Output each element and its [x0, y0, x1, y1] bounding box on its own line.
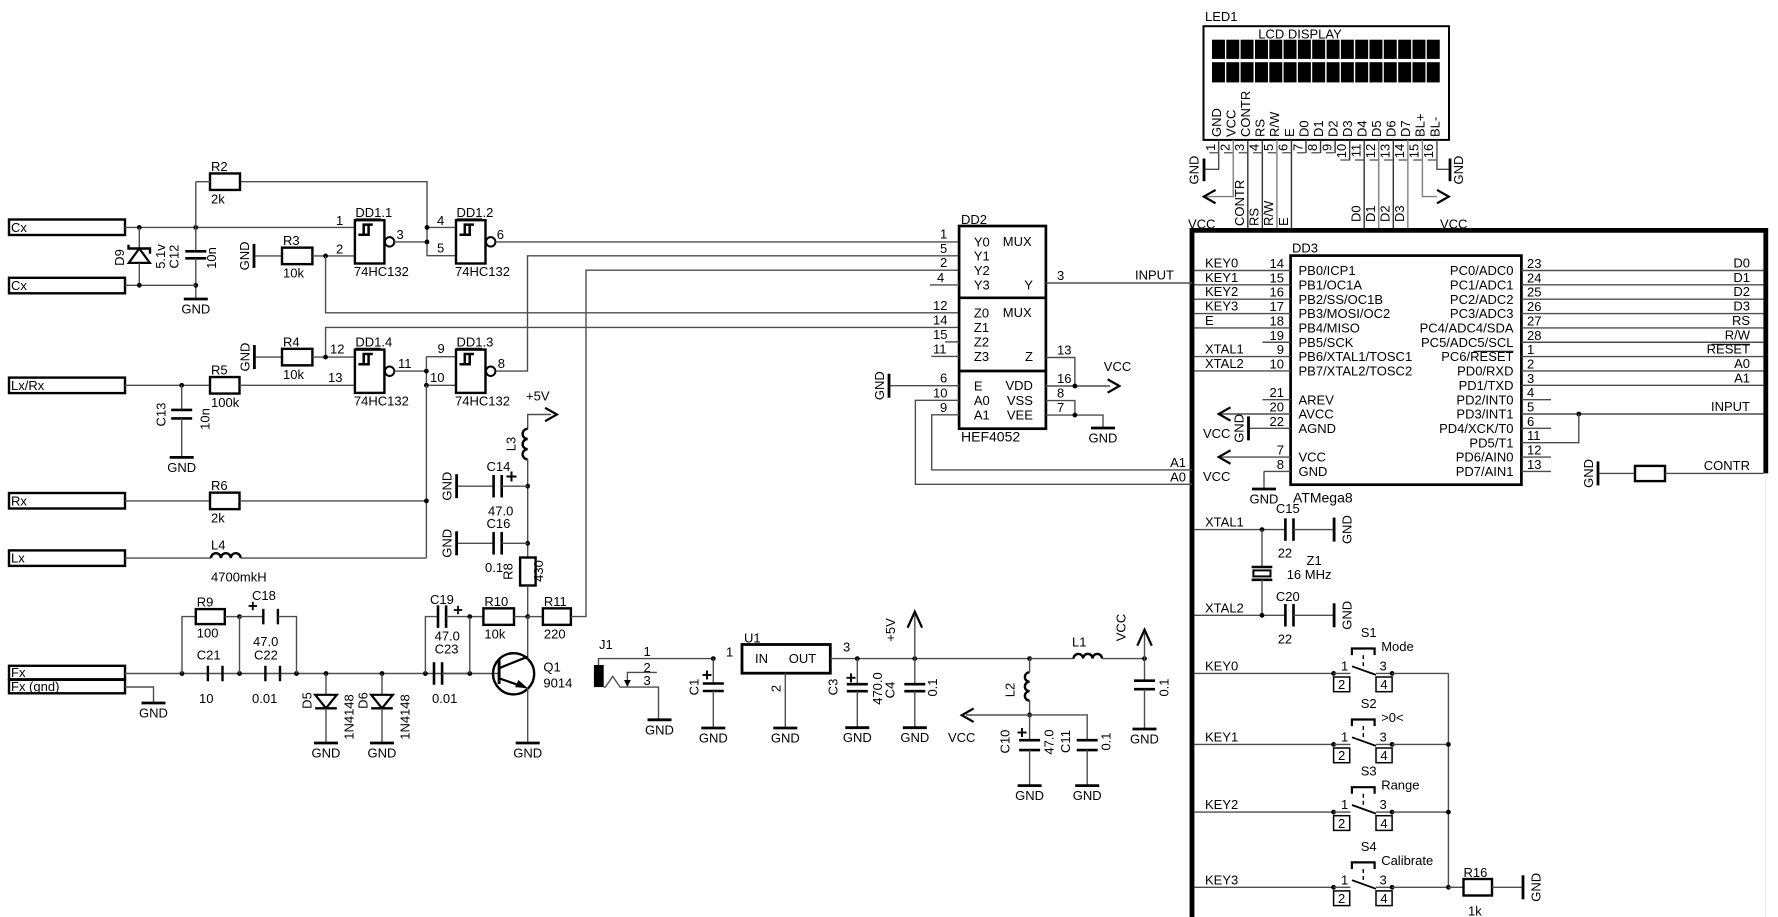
svg-text:3: 3	[1232, 144, 1247, 151]
svg-text:R10: R10	[484, 594, 508, 609]
svg-text:INPUT: INPUT	[1135, 267, 1174, 282]
DD2 A1 wire	[932, 400, 1192, 470]
resistor R10 10k	[470, 594, 530, 642]
ground at J1	[645, 720, 674, 738]
svg-text:8: 8	[1305, 144, 1320, 151]
svg-text:DD1.2: DD1.2	[457, 205, 494, 220]
svg-text:IN: IN	[755, 651, 768, 666]
ground at C15	[1334, 515, 1355, 544]
svg-text:1: 1	[940, 227, 947, 242]
svg-text:5: 5	[940, 241, 947, 256]
svg-text:KEY0: KEY0	[1205, 658, 1238, 673]
svg-text:D1: D1	[1363, 205, 1378, 222]
svg-text:1: 1	[1341, 659, 1348, 674]
svg-text:10: 10	[1334, 144, 1349, 158]
LCD pin 11 wire D0	[1363, 140, 1365, 228]
svg-text:CONTR: CONTR	[1704, 458, 1750, 473]
svg-text:C18: C18	[252, 588, 276, 603]
svg-text:Q1: Q1	[543, 660, 560, 675]
capacitor C20 22	[1276, 589, 1334, 647]
svg-text:1N4148: 1N4148	[342, 694, 357, 740]
svg-text:12: 12	[1527, 443, 1541, 458]
wire R9 to C18	[225, 614, 242, 673]
svg-text:C21: C21	[197, 647, 221, 662]
DD3 pin 11 wire to INPUT	[1521, 414, 1578, 443]
svg-text:9: 9	[940, 400, 947, 415]
MCU DD3 label	[1292, 241, 1318, 256]
connector J1	[594, 637, 713, 688]
svg-text:11: 11	[933, 341, 947, 356]
svg-text:10k: 10k	[283, 367, 304, 382]
svg-text:PD4/XCK/T0: PD4/XCK/T0	[1439, 421, 1513, 436]
pin 10 label DD1.3	[430, 370, 444, 385]
svg-text:12: 12	[330, 342, 344, 357]
resistor R3 10k	[255, 233, 355, 281]
U1 pin2 to ground	[769, 673, 786, 728]
svg-text:10n: 10n	[204, 247, 219, 269]
svg-text:3: 3	[1380, 797, 1387, 812]
switch S3 Range	[1331, 764, 1448, 831]
DD3 pin 13 stub	[1521, 457, 1551, 472]
svg-text:R11: R11	[544, 594, 567, 609]
svg-text:GND: GND	[167, 460, 196, 475]
capacitor C12 10n	[167, 227, 220, 299]
svg-text:GND: GND	[1187, 156, 1202, 185]
svg-text:12: 12	[1363, 144, 1378, 158]
junction L2	[1027, 656, 1032, 661]
svg-text:GND: GND	[1529, 873, 1544, 902]
ground at Fx-gnd	[139, 703, 168, 721]
diode D5 1N4148	[300, 671, 357, 743]
LCD pin names	[1209, 91, 1442, 137]
ground below 0.1 cap	[1130, 729, 1159, 747]
svg-text:6: 6	[1276, 144, 1291, 151]
DD2 pin14 label	[933, 312, 947, 327]
ground at R4	[237, 343, 254, 372]
svg-text:LCD DISPLAY: LCD DISPLAY	[1258, 27, 1342, 42]
pin 1 label DD1.1	[336, 213, 343, 228]
svg-text:VCC: VCC	[1203, 469, 1230, 484]
connector Lx/Rx	[9, 378, 125, 394]
svg-text:R16: R16	[1464, 865, 1488, 880]
svg-text:C10: C10	[998, 730, 1013, 754]
svg-text:3: 3	[1380, 659, 1387, 674]
DD3 XTAL2 wire	[1194, 356, 1290, 372]
ground below Q1	[513, 743, 542, 761]
diode D6 1N4148	[356, 671, 413, 743]
svg-text:GND: GND	[1581, 459, 1596, 488]
svg-text:PC3/ADC3: PC3/ADC3	[1450, 306, 1514, 321]
svg-text:S1: S1	[1361, 625, 1377, 640]
VCC tag LCD left	[1188, 190, 1216, 232]
wire C19 to base node	[469, 617, 471, 674]
LCD pin 16 wire to GND	[1437, 140, 1449, 169]
svg-text:1: 1	[1341, 730, 1348, 745]
svg-text:9: 9	[1277, 342, 1284, 357]
svg-text:10: 10	[430, 370, 444, 385]
key KEY0 wire	[1194, 658, 1333, 673]
resistor R9 100	[182, 595, 225, 674]
transistor Q1 9014	[493, 617, 572, 695]
wire Z1 row to R4 node	[326, 327, 960, 357]
svg-text:RS: RS	[1247, 208, 1262, 226]
svg-text:13: 13	[328, 370, 342, 385]
wire L4 to node	[241, 557, 427, 559]
wire DD1.3 out to Y1 net	[497, 256, 960, 371]
svg-text:CONTR: CONTR	[1232, 180, 1247, 226]
svg-text:8: 8	[1277, 457, 1284, 472]
DD3 left pin names	[1299, 263, 1413, 479]
resistor R5 100k	[210, 363, 240, 411]
svg-text:2: 2	[769, 685, 784, 692]
wire node2 to Z0 row	[326, 256, 960, 313]
zener diode D9 5.1v	[112, 227, 168, 285]
pin 5 label DD1.2	[437, 240, 444, 255]
svg-text:14: 14	[1270, 256, 1284, 271]
svg-text:Y3: Y3	[974, 278, 990, 293]
svg-text:Calibrate: Calibrate	[1381, 853, 1433, 868]
svg-text:17: 17	[1270, 299, 1284, 314]
svg-text:KEY3: KEY3	[1205, 299, 1238, 314]
ground below C13	[167, 457, 196, 475]
junction node Cx-C12-R2	[193, 225, 198, 230]
DD2 pin11 stub	[931, 341, 959, 356]
svg-text:3: 3	[1527, 371, 1534, 386]
svg-text:Cx: Cx	[11, 278, 27, 293]
svg-text:74HC132: 74HC132	[354, 264, 409, 279]
svg-text:INPUT: INPUT	[1711, 399, 1750, 414]
DD3 pin 5 INPUT wire	[1521, 399, 1763, 416]
svg-text:4: 4	[1380, 891, 1387, 906]
net label RS (LCD)	[1247, 208, 1262, 226]
faint sheet edge	[1765, 476, 1767, 917]
inductor L1	[1030, 635, 1102, 659]
ground at LCD pin1	[1187, 156, 1205, 185]
svg-text:Y2: Y2	[974, 263, 990, 278]
svg-text:C4: C4	[883, 682, 898, 699]
svg-text:24: 24	[1527, 270, 1541, 285]
svg-text:VCC: VCC	[1224, 110, 1239, 137]
LCD pin 14 wire D3	[1407, 140, 1409, 228]
svg-text:R9: R9	[197, 595, 214, 610]
node DD1.3 inputs	[424, 357, 456, 388]
DD2 pin names	[974, 234, 1033, 423]
svg-text:26: 26	[1527, 299, 1541, 314]
XTAL1 wire	[1194, 515, 1285, 532]
svg-text:C16: C16	[487, 516, 511, 531]
net label CONTR (LCD)	[1232, 180, 1247, 226]
connector Fx (gnd)	[9, 679, 125, 694]
svg-text:D6: D6	[1384, 120, 1399, 137]
svg-text:KEY2: KEY2	[1205, 284, 1238, 299]
capacitor C21 10	[197, 647, 223, 706]
svg-text:C14: C14	[487, 459, 511, 474]
svg-text:1: 1	[1203, 144, 1218, 151]
svg-text:KEY3: KEY3	[1205, 872, 1238, 887]
wire U1 out rail	[830, 658, 1029, 660]
resistor R6 2k	[125, 478, 240, 526]
svg-text:GND: GND	[872, 371, 887, 400]
svg-text:AGND: AGND	[1299, 421, 1337, 436]
svg-text:C13: C13	[154, 403, 169, 427]
svg-text:A1: A1	[1170, 455, 1186, 470]
svg-text:9: 9	[438, 341, 445, 356]
svg-text:7: 7	[1277, 443, 1284, 458]
ground below C4	[900, 728, 929, 746]
LCD pin 1 wire to GND	[1205, 140, 1218, 169]
svg-text:GND: GND	[1250, 492, 1279, 507]
wire DD1.4 out	[394, 370, 426, 372]
junction mid	[237, 671, 242, 676]
ground below C11	[1073, 786, 1102, 804]
svg-text:L2: L2	[1003, 683, 1018, 697]
DD3 pin 21 AREV stub	[1262, 385, 1290, 400]
svg-text:E: E	[1205, 313, 1214, 328]
svg-text:Z3: Z3	[974, 349, 989, 364]
ground at R16	[1523, 873, 1544, 902]
svg-text:0.1: 0.1	[925, 678, 940, 696]
svg-text:Y: Y	[1024, 277, 1033, 292]
svg-text:S3: S3	[1361, 764, 1377, 779]
net CONTR with resistor	[1581, 458, 1763, 488]
svg-text:OUT: OUT	[789, 651, 817, 666]
DD3 pin 6 stub	[1521, 414, 1551, 429]
svg-text:L1: L1	[1072, 635, 1086, 650]
ground at DD3 pin8	[1250, 489, 1279, 507]
svg-text:L4: L4	[211, 538, 225, 553]
ground below U1	[771, 728, 800, 746]
svg-text:PD5/T1: PD5/T1	[1469, 435, 1513, 450]
svg-text:2: 2	[1338, 891, 1345, 906]
svg-text:4: 4	[937, 270, 944, 285]
svg-text:C3: C3	[826, 679, 841, 696]
svg-text:4: 4	[1380, 816, 1387, 831]
LCD pin 15 wire to VCC	[1422, 140, 1437, 197]
junction R9-left	[180, 671, 185, 676]
regulator U1	[726, 631, 850, 674]
key KEY2 wire	[1194, 797, 1333, 812]
DD3 pin 19 stub	[1262, 328, 1290, 343]
svg-text:Z0: Z0	[974, 305, 989, 320]
svg-text:VDD: VDD	[1005, 378, 1032, 393]
wire DD1.1 out to DD1.2	[394, 241, 427, 243]
gate DD1.4 74HC132	[354, 334, 409, 408]
capacitor C19 47.0	[430, 592, 472, 644]
svg-text:GND: GND	[645, 722, 674, 737]
power +5V arrow	[526, 389, 557, 429]
gate DD1.2 74HC132	[455, 205, 510, 279]
svg-text:VCC: VCC	[1114, 614, 1129, 641]
capacitor C1 470.0	[687, 656, 724, 728]
junction C18-right	[294, 671, 299, 676]
svg-text:220: 220	[544, 626, 566, 641]
inductor L3	[504, 429, 528, 460]
svg-text:A0: A0	[1734, 356, 1750, 371]
wire L3 to R8	[525, 459, 530, 557]
svg-text:PD1/TXD: PD1/TXD	[1459, 378, 1514, 393]
svg-text:PD3/INT1: PD3/INT1	[1456, 407, 1513, 422]
J1 sleeve to ground	[604, 676, 659, 719]
svg-text:R6: R6	[211, 478, 228, 493]
pin 2 label DD1.1	[336, 241, 343, 256]
DD2 VDD to VCC	[1046, 359, 1131, 393]
svg-text:PD0/RXD: PD0/RXD	[1457, 364, 1513, 379]
svg-text:21: 21	[1270, 385, 1284, 400]
svg-text:2: 2	[940, 255, 947, 270]
svg-text:1k: 1k	[1468, 904, 1482, 917]
svg-text:D0: D0	[1296, 120, 1311, 137]
LCD character cells	[1212, 40, 1440, 83]
net label D0 (LCD)	[1349, 205, 1364, 222]
LCD pin 6 wire E	[1290, 140, 1292, 228]
DD3 AVCC to VCC	[1203, 400, 1291, 442]
svg-text:R/W: R/W	[1725, 327, 1751, 342]
pin 3 label DD1.1	[397, 227, 404, 242]
ground below D6	[368, 743, 397, 761]
svg-text:2: 2	[1338, 816, 1345, 831]
svg-text:E: E	[974, 378, 983, 393]
svg-text:28: 28	[1527, 328, 1541, 343]
switch common bus	[1446, 673, 1451, 889]
svg-text:9: 9	[1319, 144, 1334, 151]
MCU DD3 name ATMega8	[1293, 490, 1353, 506]
resistor R8 430	[501, 558, 547, 617]
svg-text:Range: Range	[1381, 778, 1419, 793]
LCD display box	[1204, 26, 1450, 140]
svg-text:10: 10	[1270, 356, 1284, 371]
svg-text:12: 12	[933, 298, 947, 313]
DD2 VSS wire	[1046, 386, 1075, 416]
svg-text:D5: D5	[1369, 120, 1384, 137]
svg-text:23: 23	[1527, 256, 1541, 271]
svg-text:GND: GND	[312, 746, 341, 761]
svg-text:DD1.3: DD1.3	[457, 334, 494, 349]
LCD pin 12 wire D1	[1378, 140, 1380, 228]
svg-text:XTAL2: XTAL2	[1205, 600, 1244, 615]
svg-text:C12: C12	[167, 245, 182, 269]
svg-text:PB0/ICP1: PB0/ICP1	[1299, 263, 1356, 278]
DD3 pin 12 stub	[1521, 443, 1551, 458]
svg-text:GND: GND	[440, 529, 455, 558]
svg-text:ATMega8: ATMega8	[1293, 490, 1353, 506]
svg-text:PB4/MISO: PB4/MISO	[1299, 321, 1360, 336]
svg-text:13: 13	[1378, 144, 1393, 158]
DD2 pin12 label	[933, 298, 947, 313]
LCD pin 5 wire R/W	[1276, 140, 1278, 228]
svg-text:GND: GND	[368, 746, 397, 761]
DD3 KEY/E input wires	[1194, 256, 1290, 329]
LCD pin 2 wire to VCC	[1206, 140, 1233, 197]
svg-text:C15: C15	[1276, 501, 1300, 516]
svg-text:MUX: MUX	[1003, 234, 1032, 249]
svg-text:20: 20	[1270, 400, 1284, 415]
svg-text:A0: A0	[974, 393, 990, 408]
svg-text:6: 6	[497, 227, 504, 242]
svg-text:D4: D4	[1355, 120, 1370, 137]
svg-text:2: 2	[1338, 677, 1345, 692]
svg-text:10k: 10k	[484, 626, 505, 641]
DD2 Y output INPUT net	[1046, 267, 1192, 283]
wire Q1 emitter to ground	[527, 688, 529, 743]
svg-text:4: 4	[1380, 677, 1387, 692]
svg-text:3: 3	[644, 673, 651, 688]
MUX DD2 box	[959, 226, 1046, 429]
svg-text:6: 6	[940, 371, 947, 386]
LCD pin 13 wire D2	[1392, 140, 1394, 228]
inductor L2	[1003, 659, 1033, 718]
svg-text:XTAL2: XTAL2	[1205, 356, 1244, 371]
svg-text:0.01: 0.01	[252, 691, 277, 706]
svg-text:4: 4	[437, 213, 444, 228]
svg-text:27: 27	[1527, 313, 1541, 328]
svg-text:Y0: Y0	[974, 234, 990, 249]
connector Rx	[9, 493, 125, 509]
pin 6 label DD1.2	[497, 227, 504, 242]
J1 pin2 switch contact	[624, 672, 657, 687]
svg-text:RS: RS	[1253, 119, 1268, 137]
svg-text:1: 1	[1341, 797, 1348, 812]
svg-text:BL+: BL+	[1413, 114, 1428, 138]
svg-text:GND: GND	[843, 730, 872, 745]
LCD pin 7 stub	[1305, 140, 1307, 153]
svg-text:D9: D9	[112, 249, 127, 266]
svg-text:VCC: VCC	[948, 730, 975, 745]
svg-text:2k: 2k	[211, 191, 225, 206]
svg-text:Fx: Fx	[11, 665, 26, 680]
DD2 pin4 stub	[930, 270, 959, 285]
power VCC arrow (right)	[1114, 614, 1152, 659]
svg-text:0.1: 0.1	[1157, 678, 1172, 696]
svg-text:8: 8	[498, 356, 505, 371]
svg-text:10: 10	[199, 691, 213, 706]
svg-text:11: 11	[398, 356, 412, 371]
DD2 E pin to ground	[872, 371, 959, 400]
inductor L4 4700mkH	[125, 538, 267, 585]
svg-text:D6: D6	[356, 692, 371, 709]
capacitor C18 47.0	[240, 588, 297, 674]
svg-text:74HC132: 74HC132	[455, 264, 510, 279]
svg-text:6: 6	[1527, 414, 1534, 429]
svg-text:D3: D3	[1340, 120, 1355, 137]
svg-text:A1: A1	[1734, 370, 1750, 385]
wire R5 to DD1.4 pin13	[240, 384, 355, 386]
svg-text:22: 22	[1278, 632, 1292, 647]
svg-text:CONTR: CONTR	[1238, 91, 1253, 137]
svg-text:XTAL1: XTAL1	[1205, 515, 1244, 530]
svg-text:AREV: AREV	[1299, 392, 1335, 407]
svg-text:DD1.1: DD1.1	[355, 205, 392, 220]
pin 8 label DD1.3	[498, 356, 505, 371]
svg-text:PC2/ADC2: PC2/ADC2	[1450, 292, 1514, 307]
svg-text:DD3: DD3	[1292, 241, 1318, 256]
svg-text:22: 22	[1278, 546, 1292, 561]
wire Y0 net (DD1.2 out to DD2 pin1)	[495, 241, 959, 243]
svg-text:4700mkH: 4700mkH	[211, 570, 267, 585]
svg-text:KEY1: KEY1	[1205, 270, 1238, 285]
svg-text:430: 430	[531, 560, 546, 582]
resistor R4 10k	[256, 334, 355, 382]
capacitor C13 10n	[154, 385, 213, 457]
svg-text:5: 5	[1261, 144, 1276, 151]
svg-text:PB6/XTAL1/TOSC1: PB6/XTAL1/TOSC1	[1299, 349, 1413, 364]
svg-text:D3: D3	[1733, 299, 1750, 314]
svg-text:25: 25	[1527, 285, 1541, 300]
net label R/W (LCD)	[1261, 200, 1276, 226]
svg-text:1N4148: 1N4148	[398, 694, 413, 740]
svg-text:A0: A0	[1170, 469, 1186, 484]
ground below D5	[312, 743, 341, 761]
ground at C14	[440, 472, 457, 501]
